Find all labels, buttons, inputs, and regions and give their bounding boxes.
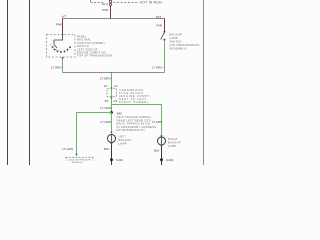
wire LT GRN from park/neutral switch <box>62 59 64 73</box>
svg-text:C2: C2 <box>114 99 118 103</box>
wire LT GRN from backup lamp switch <box>164 41 166 73</box>
junction at bus <box>110 18 112 20</box>
wire green bus joining both switches <box>63 72 165 74</box>
pin into right backup lamp <box>160 135 162 137</box>
svg-text:LT GRN: LT GRN <box>152 120 162 124</box>
splice S410 <box>110 158 113 161</box>
svg-text:14: 14 <box>104 84 108 88</box>
fuse block dashed box (cut off at top) <box>91 0 139 3</box>
svg-text:STRUT TOWER): STRUT TOWER) <box>119 100 148 104</box>
trailer wiring connector C400 (dashed, cut off) <box>66 156 93 158</box>
svg-text:S410: S410 <box>116 158 123 162</box>
pin out of right backup lamp <box>160 145 162 147</box>
splice G402 <box>160 158 163 161</box>
svg-text:S40: S40 <box>117 111 123 115</box>
park/neutral position switch symbol <box>54 36 63 48</box>
svg-text:ASSEMBLY): ASSEMBLY) <box>170 47 187 51</box>
svg-text:TOP OF TRANSMISSION: TOP OF TRANSMISSION <box>77 54 112 58</box>
svg-text:G402: G402 <box>166 158 174 162</box>
svg-text:BACKUP: BACKUP <box>170 33 183 37</box>
pin out of left backup lamp <box>110 143 112 145</box>
page rule left outer <box>7 0 9 165</box>
svg-text:HOT IN RUN: HOT IN RUN <box>140 1 163 5</box>
fuse symbol <box>109 0 111 6</box>
svg-text:RIGHT: RIGHT <box>168 137 178 141</box>
wire BLK from left backup lamp <box>111 145 113 166</box>
page rule right <box>203 0 205 165</box>
svg-text:P: P <box>50 45 52 47</box>
svg-text:LT GRN: LT GRN <box>51 65 62 69</box>
wire BLK from right backup lamp <box>161 147 163 165</box>
svg-text:BACKUP: BACKUP <box>119 138 132 142</box>
svg-text:LAMP: LAMP <box>119 142 128 146</box>
svg-text:WIRING): WIRING) <box>72 162 83 164</box>
wire PNK from fuse to bus <box>110 6 112 19</box>
svg-text:M/T: M/T <box>156 15 161 19</box>
svg-text:LT GRN: LT GRN <box>152 66 163 70</box>
park/neutral position switch dashed box <box>47 35 76 58</box>
underhood fuse block text label <box>119 88 152 104</box>
svg-text:FROM BREAKOUT): FROM BREAKOUT) <box>117 128 145 132</box>
svg-text:LEFT: LEFT <box>119 135 127 139</box>
page rule left inner <box>29 0 31 165</box>
svg-text:LT GRN: LT GRN <box>100 120 111 124</box>
svg-text:A/T: A/T <box>62 15 67 19</box>
svg-text:1: 1 <box>67 48 69 50</box>
junction at center drop <box>111 72 113 74</box>
wire LT GRN to left backup lamp <box>111 113 113 132</box>
svg-text:20 A: 20 A <box>102 2 108 6</box>
svg-text:LAMP: LAMP <box>168 144 177 148</box>
pin out of switch <box>61 57 63 59</box>
svg-text:LT GRN: LT GRN <box>62 147 73 151</box>
wire branch to right backup lamp <box>112 105 162 136</box>
underhood fuse block dashed box <box>107 89 117 97</box>
svg-text:BACKUP: BACKUP <box>168 141 181 145</box>
pin into left backup lamp <box>110 132 112 134</box>
splice S40 description <box>117 115 157 132</box>
left backup lamp text label <box>119 135 132 146</box>
svg-text:(ON TRANSMISSION: (ON TRANSMISSION <box>170 43 200 47</box>
svg-text:BLK: BLK <box>154 149 160 153</box>
wire PNK to backup lamp switch <box>164 19 166 32</box>
svg-text:LAMP: LAMP <box>170 36 178 40</box>
wire LT GRN below fuse block <box>111 99 113 114</box>
right backup lamp B2 <box>158 137 166 145</box>
svg-text:PNK: PNK <box>56 22 62 26</box>
wire main bus <box>63 18 166 20</box>
svg-text:BLK: BLK <box>104 147 110 151</box>
wire PNK to park/neutral switch <box>62 19 64 35</box>
pin into trailer connector <box>75 154 77 156</box>
backup lamp switch text label <box>170 33 200 51</box>
svg-text:56: 56 <box>105 99 109 103</box>
pin out of fuse block <box>110 97 112 99</box>
splice S40 <box>110 111 113 114</box>
svg-text:PNK: PNK <box>102 8 108 12</box>
svg-text:LT GRN: LT GRN <box>100 106 111 110</box>
park/neutral position switch text label <box>77 35 112 58</box>
backup lamp switch symbol <box>164 31 166 33</box>
svg-text:LT GRN: LT GRN <box>100 77 111 81</box>
left backup lamp B1 <box>108 135 116 143</box>
trailer connector text label <box>68 159 91 164</box>
pin into switch <box>61 34 63 36</box>
wire LT GRN center drop <box>111 73 113 89</box>
svg-text:PNK: PNK <box>156 23 162 27</box>
svg-text:SWITCH: SWITCH <box>170 40 182 44</box>
svg-text:C1: C1 <box>114 84 118 88</box>
wire branch to trailer connector <box>77 113 112 154</box>
wire through fuse block <box>111 89 113 97</box>
pin into fuse block <box>110 88 112 90</box>
right backup lamp text label <box>168 137 181 148</box>
